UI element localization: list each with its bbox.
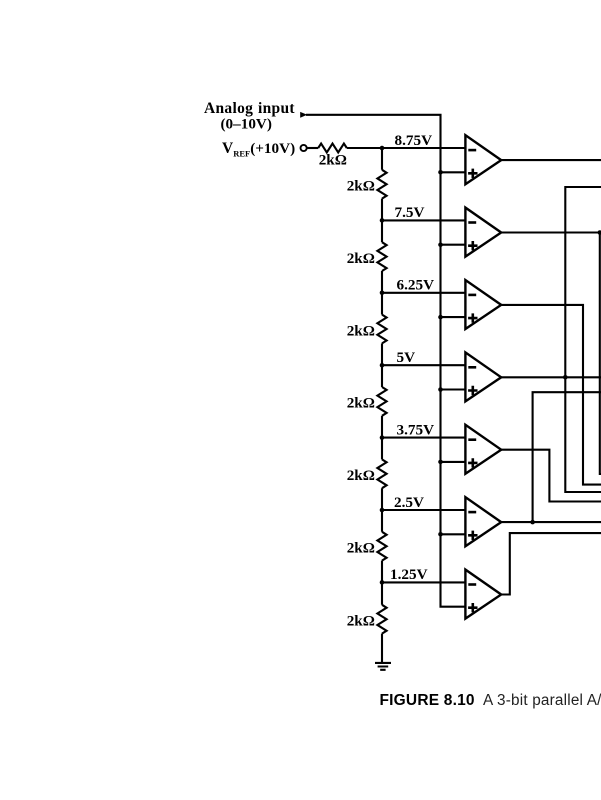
svg-text:(0–10V): (0–10V) bbox=[221, 115, 272, 132]
svg-text:3.75V: 3.75V bbox=[397, 421, 435, 438]
svg-text:6.25V: 6.25V bbox=[397, 277, 435, 294]
svg-text:2.5V: 2.5V bbox=[394, 494, 424, 511]
svg-text:2kΩ: 2kΩ bbox=[347, 467, 375, 484]
svg-text:8.75V: 8.75V bbox=[395, 132, 433, 149]
svg-text:2kΩ: 2kΩ bbox=[347, 395, 375, 412]
svg-text:2kΩ: 2kΩ bbox=[347, 613, 375, 630]
svg-text:2kΩ: 2kΩ bbox=[319, 152, 347, 169]
svg-text:A 3-bit parallel A/D converter: A 3-bit parallel A/D converter. bbox=[483, 692, 601, 709]
svg-text:7.5V: 7.5V bbox=[395, 204, 425, 221]
svg-text:VREF(+10V): VREF(+10V) bbox=[222, 140, 295, 159]
svg-text:2kΩ: 2kΩ bbox=[347, 178, 375, 195]
svg-text:2kΩ: 2kΩ bbox=[347, 250, 375, 267]
svg-text:5V: 5V bbox=[397, 349, 416, 366]
svg-text:FIGURE 8.10: FIGURE 8.10 bbox=[380, 692, 475, 709]
svg-text:1.25V: 1.25V bbox=[390, 566, 428, 583]
svg-text:2kΩ: 2kΩ bbox=[347, 322, 375, 339]
svg-text:2kΩ: 2kΩ bbox=[347, 540, 375, 557]
